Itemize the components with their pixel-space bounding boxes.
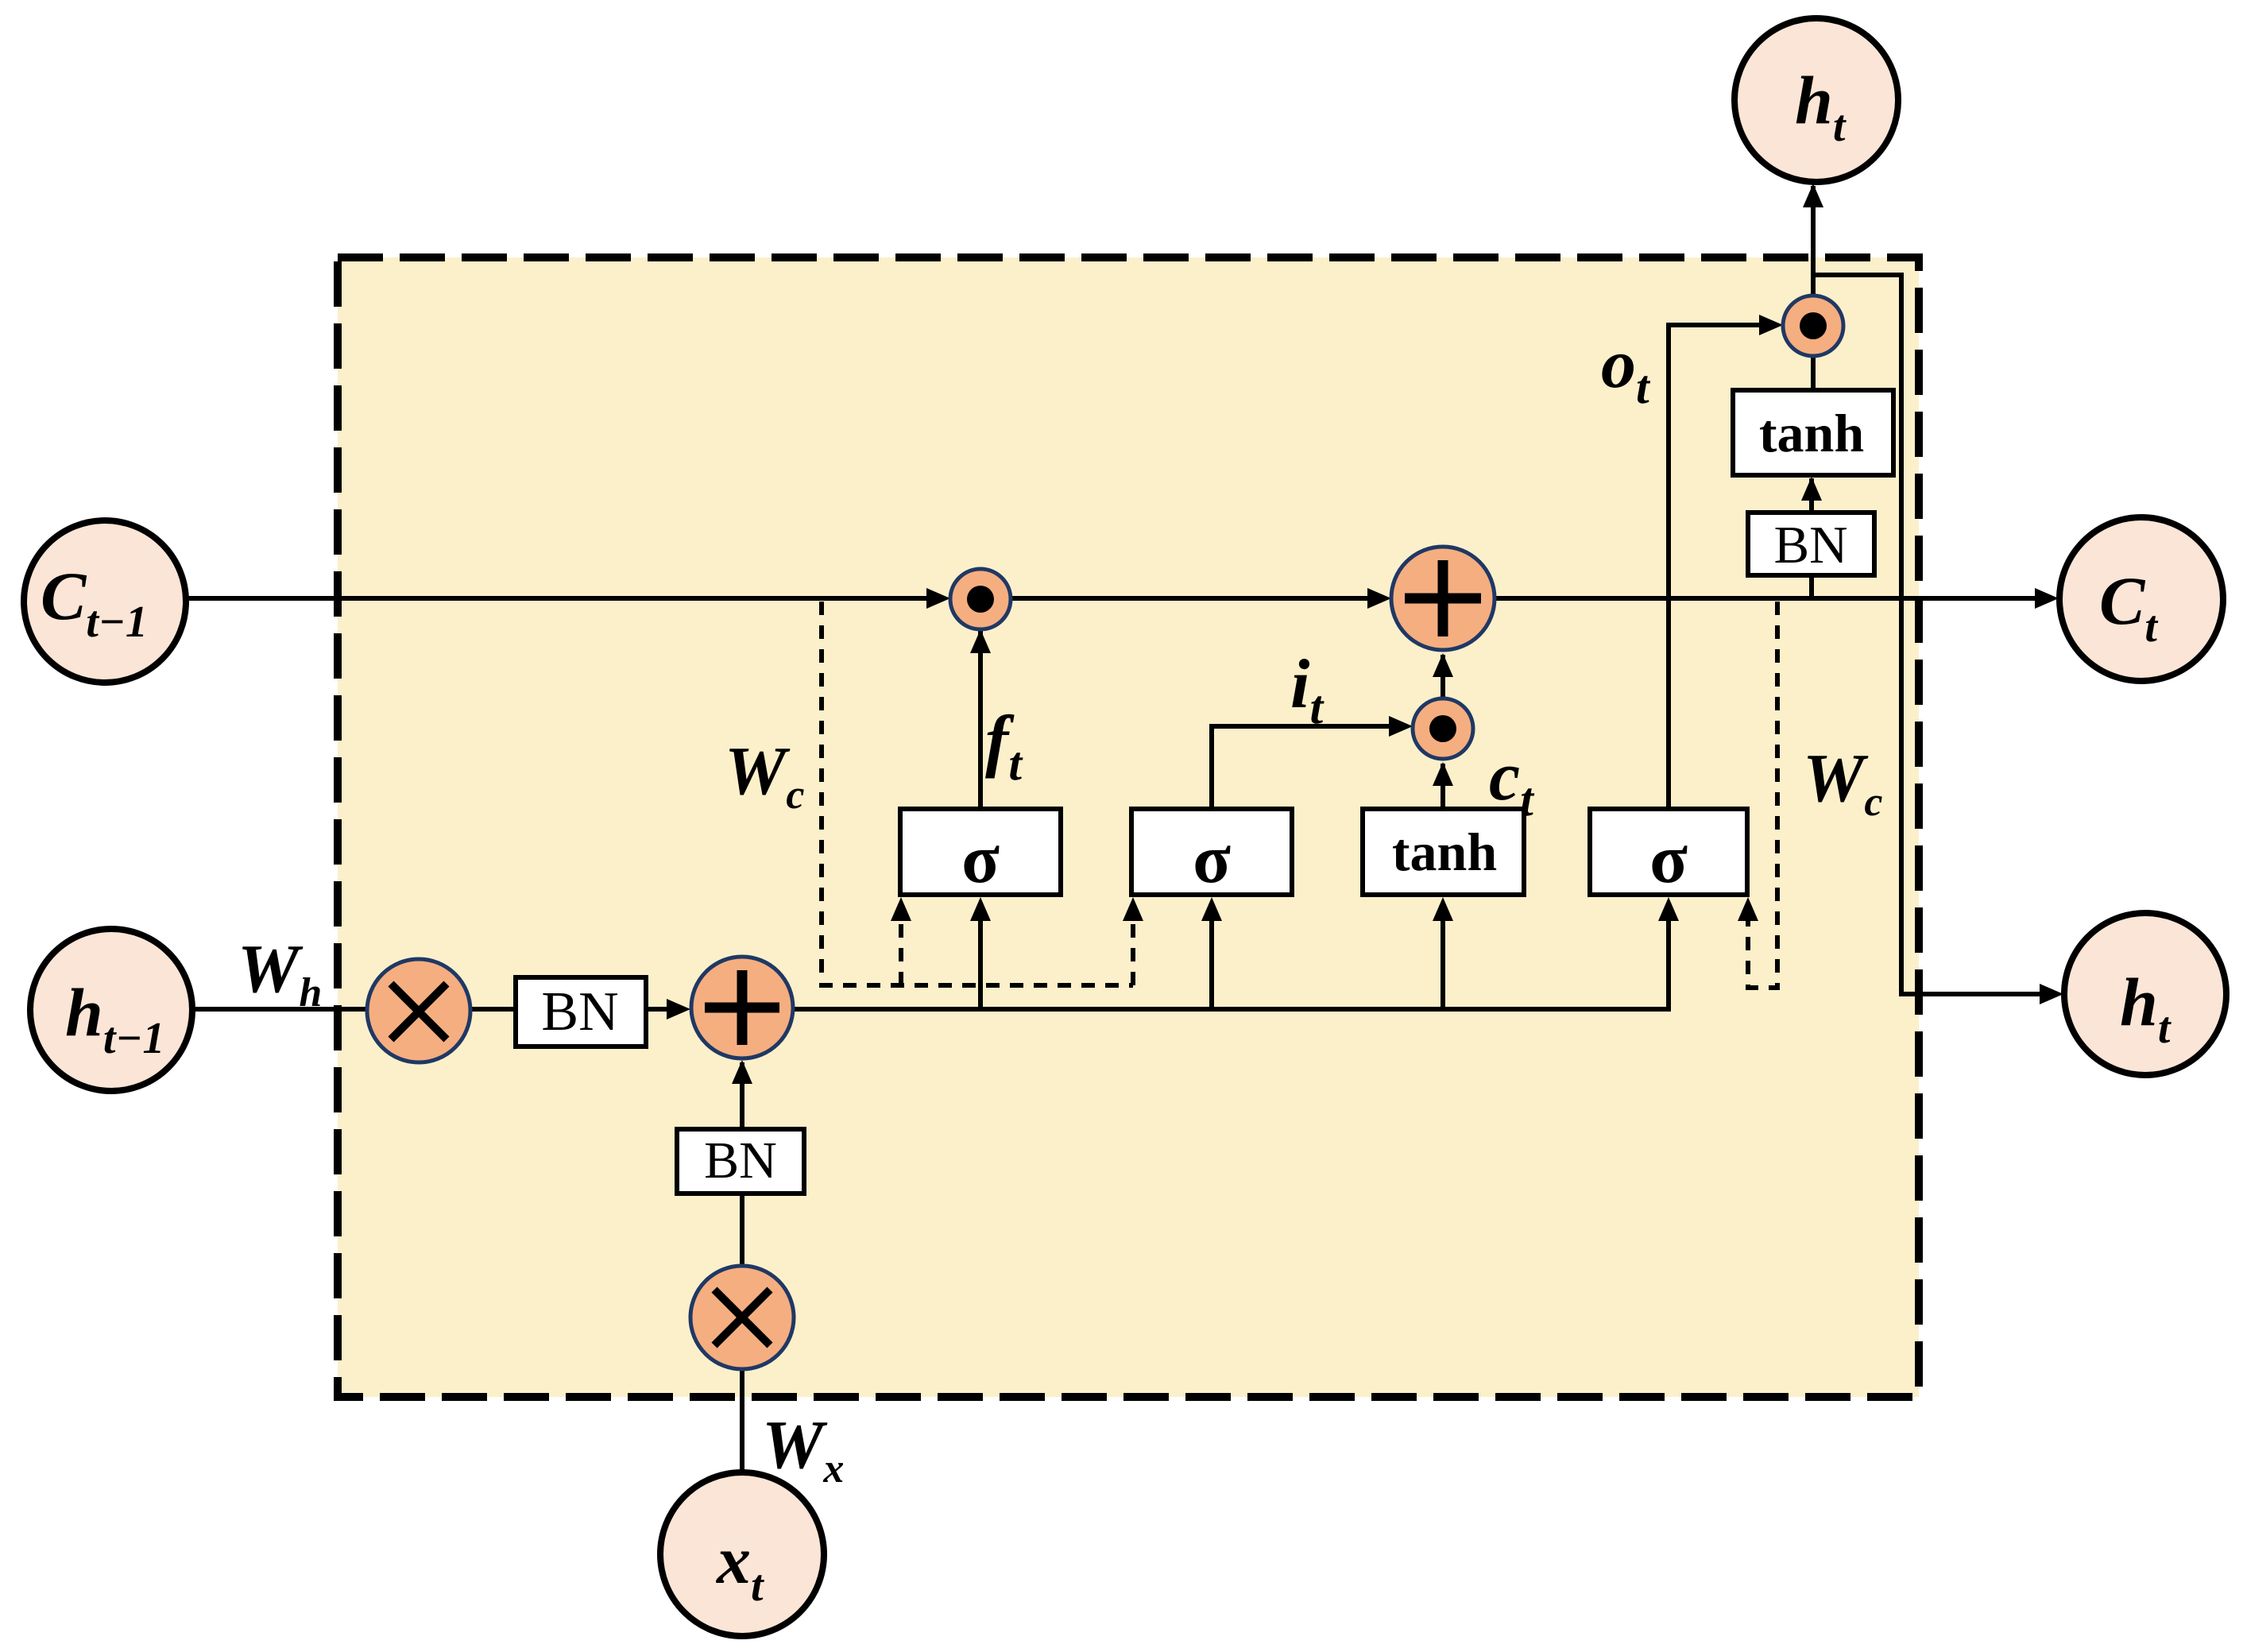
wire W_c dashed riser into sigma2 bbox=[1131, 906, 1135, 985]
operator forget product (dot) bbox=[950, 569, 1011, 629]
svg-text:BN: BN bbox=[541, 981, 618, 1043]
gate sigma2 (input gate) bbox=[1131, 809, 1292, 895]
wire BN2 up to hidden sum bbox=[740, 1062, 744, 1129]
svg-text:tanh: tanh bbox=[1759, 403, 1864, 463]
LSTM cell body (dashed box) bbox=[338, 257, 1919, 1397]
node h_t right bbox=[2064, 913, 2226, 1075]
wire BN1 to hidden sum bbox=[646, 1007, 671, 1012]
wire h branch: from output column right and down to h_t right bbox=[1813, 275, 2044, 994]
operator times2 (input transform of x) bbox=[690, 1266, 794, 1369]
operator times1 (input transform of h) bbox=[367, 959, 470, 1062]
wire f_t: sigma1 up to forget product bbox=[978, 631, 983, 809]
svg-text:tanh: tanh bbox=[1392, 822, 1497, 882]
wire C_{t-1} to forget product bbox=[186, 596, 930, 601]
wire forget product to cell sum bbox=[1011, 596, 1371, 601]
node C_t bbox=[2059, 517, 2223, 681]
gate sigma4 (output gate) bbox=[1590, 809, 1747, 895]
box BN2 (x path) bbox=[677, 1129, 804, 1194]
wire output product up to h_t top bbox=[1811, 186, 1816, 296]
operator output product (dot) bbox=[1783, 296, 1843, 356]
wire hidden sum to gates bus bbox=[793, 906, 1669, 1009]
wire input product up to cell sum bbox=[1441, 655, 1445, 697]
wire h_{t-1} to times1 bbox=[192, 1007, 381, 1012]
operator input product (dot) bbox=[1413, 698, 1473, 759]
wire BN up into tanh (top) bbox=[1809, 478, 1814, 513]
svg-text:σ: σ bbox=[1649, 821, 1688, 898]
wire times2 up to BN2 bbox=[740, 1194, 744, 1267]
wire W_c dashed right: from C-line down into sigma4 bbox=[1748, 602, 1777, 988]
wire bus riser into sigma2 bbox=[1209, 906, 1214, 1009]
node h_t top bbox=[1734, 18, 1898, 182]
wire times1 to BN1 bbox=[469, 1007, 516, 1012]
wire cell sum to C_t bbox=[1496, 596, 2039, 601]
svg-text:BN: BN bbox=[1773, 516, 1847, 575]
node x_t bbox=[660, 1472, 824, 1636]
svg-text:BN: BN bbox=[704, 1132, 777, 1190]
operator cell sum (plus on C line) bbox=[1391, 547, 1495, 650]
box BN top bbox=[1748, 513, 1874, 575]
wire W_c dashed left: from C-line down and across to gate inputs bbox=[822, 602, 1133, 985]
node C_{t-1} bbox=[24, 520, 186, 683]
box tanh top (output activation) bbox=[1733, 390, 1893, 475]
gate tanh (candidate) bbox=[1363, 809, 1524, 895]
svg-text:Wx: Wx bbox=[762, 1406, 844, 1491]
svg-text:Wh: Wh bbox=[238, 930, 322, 1016]
wire x_t up to times2 bbox=[740, 1370, 744, 1473]
gate sigma1 (forget gate) bbox=[900, 809, 1061, 895]
wire bus riser into sigma1 bbox=[978, 906, 983, 1009]
svg-text:σ: σ bbox=[961, 821, 1000, 898]
node h_{t-1} bbox=[30, 929, 192, 1091]
wire C-line branch up into BN below tanh bbox=[1809, 575, 1814, 598]
wire o_t: sigma4 up and right into output product bbox=[1669, 325, 1762, 809]
operator hidden sum (plus on h line) bbox=[691, 957, 793, 1058]
wire bus riser into tanh gate bbox=[1441, 906, 1445, 1009]
wire i_t: sigma2 up and right into input product bbox=[1212, 726, 1392, 809]
wire tanh (top) up to output product bbox=[1811, 356, 1816, 390]
wire W_c dashed riser into sigma1 bbox=[899, 906, 903, 985]
svg-text:σ: σ bbox=[1193, 821, 1231, 898]
box BN1 (h path) bbox=[516, 977, 646, 1047]
wire c_t: tanh gate up to input product bbox=[1441, 764, 1445, 809]
